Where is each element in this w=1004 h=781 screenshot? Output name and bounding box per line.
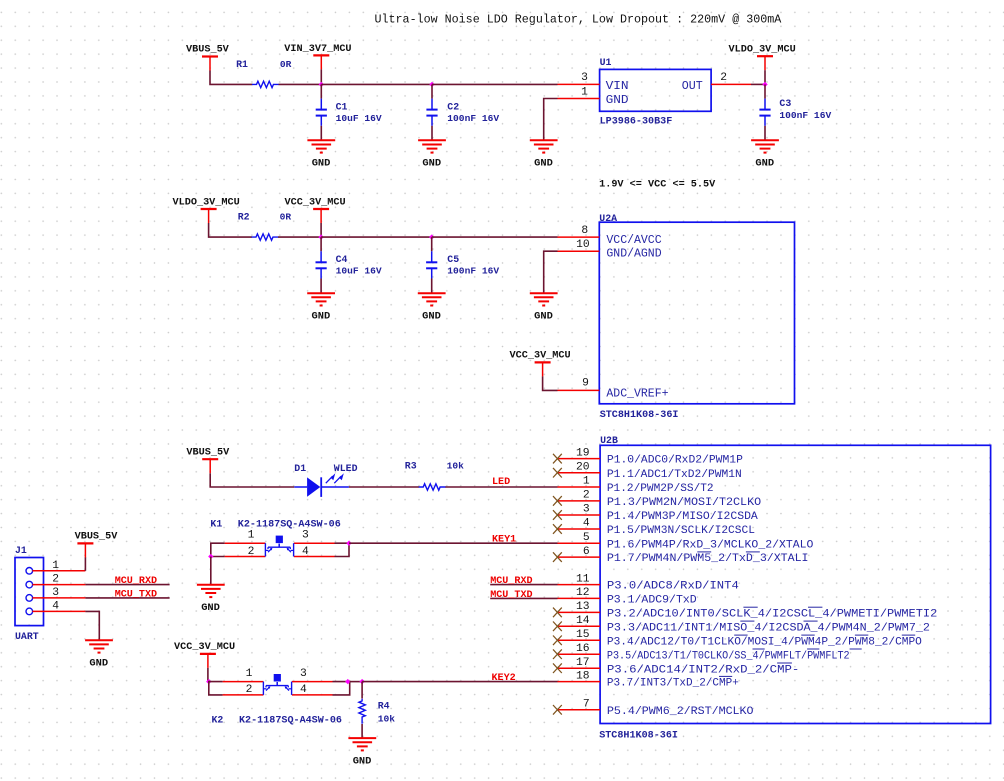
svg-text:GND: GND <box>422 158 441 170</box>
J1 pin 1 <box>26 568 33 575</box>
svg-text:11: 11 <box>576 573 590 585</box>
switch K2 contacts and button <box>262 682 264 695</box>
svg-text:2: 2 <box>583 490 590 502</box>
U2B pin 20 P1.1 <box>558 472 601 474</box>
U2B pin 17 P3.6 <box>558 667 601 669</box>
wire node to C2 <box>321 83 432 85</box>
svg-text:VCC/AVCC: VCC/AVCC <box>606 234 661 247</box>
wire U1 GND pin to ground <box>544 99 558 141</box>
svg-text:1: 1 <box>248 530 255 542</box>
svg-text:GND: GND <box>312 158 331 170</box>
switch K1 pin 4 <box>294 556 335 558</box>
svg-text:C2: C2 <box>447 101 459 112</box>
svg-text:3: 3 <box>52 587 59 599</box>
wire J1 pin3 net MCU_TXD <box>85 597 169 599</box>
switch K1 contacts and button <box>264 543 266 556</box>
junction at C2 <box>429 82 434 87</box>
svg-text:GND: GND <box>89 658 108 670</box>
power flag VLDO_3V_MCU (U1 output) <box>757 55 773 57</box>
svg-text:1: 1 <box>583 476 590 488</box>
switch K1 pin 2 <box>225 556 266 558</box>
power flag VCC_3V_MCU (ADC_VREF+) <box>535 361 551 363</box>
wire J1 pin2 net MCU_RXD <box>85 584 169 586</box>
switch K2 pin 2 <box>223 694 264 696</box>
wire J1 pin1 to VBUS_5V <box>84 557 86 571</box>
junction K2 top left <box>206 679 211 684</box>
svg-text:3: 3 <box>300 668 307 680</box>
svg-text:R4: R4 <box>378 700 390 711</box>
U2B pin 6 P1.7 <box>558 556 601 558</box>
svg-text:4: 4 <box>302 546 309 558</box>
svg-text:KEY1: KEY1 <box>492 534 516 545</box>
resistor R1 <box>252 81 279 87</box>
U2A pin 8 VCC/AVCC <box>558 236 600 238</box>
wire C2 node to U1 pin 3 <box>432 83 558 85</box>
svg-text:VBUS_5V: VBUS_5V <box>75 532 119 543</box>
U2B pin 11 P3.0 <box>558 584 601 586</box>
svg-text:VIN: VIN <box>606 80 629 93</box>
capacitor C3 <box>764 84 766 98</box>
svg-text:GND: GND <box>312 311 331 323</box>
wire VIN_3V7_MCU stem to rail <box>320 69 322 84</box>
svg-text:3: 3 <box>583 504 590 516</box>
ground below R4 <box>348 737 376 739</box>
U2B pin 13 P3.2 <box>558 611 601 613</box>
svg-text:20: 20 <box>576 461 590 473</box>
svg-text:GND: GND <box>755 158 774 170</box>
svg-text:1: 1 <box>581 86 588 98</box>
wire VLDO to rail B <box>209 223 252 237</box>
svg-text:P1.3/PWM2N/MOSI/T2CLKO: P1.3/PWM2N/MOSI/T2CLKO <box>607 497 761 509</box>
svg-text:ADC_VREF+: ADC_VREF+ <box>606 387 668 400</box>
svg-text:KEY2: KEY2 <box>492 673 516 684</box>
svg-text:2: 2 <box>248 546 255 558</box>
svg-text:P3.4/ADC12/T0/T1CLKO/MOSI_4/PW: P3.4/ADC12/T0/T1CLKO/MOSI_4/PWM4P_2/PWM8… <box>607 636 922 648</box>
svg-text:D1: D1 <box>294 463 306 474</box>
svg-text:P3.3/ADC11/INT1/MISO_4/I2CSDA_: P3.3/ADC11/INT1/MISO_4/I2CSDA_4/PWM4N_2/… <box>607 622 930 634</box>
svg-text:GND: GND <box>606 94 629 107</box>
svg-text:VBUS_5V: VBUS_5V <box>186 448 230 459</box>
switch K2 pin 4 <box>292 694 333 696</box>
svg-text:7: 7 <box>583 699 590 711</box>
svg-text:GND: GND <box>353 756 372 768</box>
U2B pin 3 P1.4 <box>558 514 601 516</box>
switch K2 pin 3 <box>292 681 333 683</box>
svg-text:K2: K2 <box>212 714 224 725</box>
svg-text:R2: R2 <box>238 212 250 223</box>
power flag VBUS_5V (top left) <box>202 55 218 57</box>
junction K1 bottom left <box>208 554 213 559</box>
wire K2 right loop <box>333 682 350 695</box>
U2A pin 10 GND/AGND <box>558 250 600 252</box>
ground below J1 <box>85 639 113 641</box>
wire VCC to ADC_VREF+ pin <box>543 376 558 390</box>
U2B pin 12 P3.1 <box>558 597 601 599</box>
power flag VIN_3V7_MCU <box>313 54 329 56</box>
ground below C5 <box>418 292 446 294</box>
U2B pin 1 P1.2 <box>558 486 601 488</box>
svg-text:15: 15 <box>576 629 590 641</box>
svg-text:100nF 16V: 100nF 16V <box>779 110 831 121</box>
svg-text:6: 6 <box>583 546 590 558</box>
switch K1 pin 3 <box>294 542 335 544</box>
svg-text:4: 4 <box>583 518 590 530</box>
svg-text:LP3986-30B3F: LP3986-30B3F <box>600 117 673 128</box>
connector J1 body <box>15 558 44 626</box>
svg-text:5: 5 <box>583 532 590 544</box>
junction at C5 <box>429 234 434 239</box>
svg-text:C4: C4 <box>336 254 348 265</box>
svg-text:VCC_3V_MCU: VCC_3V_MCU <box>510 350 571 361</box>
junction at C1/VIN_3V7_MCU <box>319 82 324 87</box>
wire OUT to node VLDO_3V_MCU <box>751 83 765 85</box>
U2B pin 2 P1.3 <box>558 500 601 502</box>
wire K2 to R4 node <box>350 681 362 683</box>
svg-text:P1.1/ADC1/TxD2/PWM1N: P1.1/ADC1/TxD2/PWM1N <box>607 469 742 481</box>
svg-text:P3.2/ADC10/INT0/SCLK_4/I2CSCL_: P3.2/ADC10/INT0/SCLK_4/I2CSCL_4/PWMETI/P… <box>607 609 938 621</box>
svg-text:1.9V <= VCC <= 5.5V: 1.9V <= VCC <= 5.5V <box>599 180 716 191</box>
J1 pin 2 <box>26 581 33 588</box>
wire C5 node to U2A pin 8 <box>432 236 558 238</box>
wire VBUS_5V to rail <box>210 71 252 85</box>
wire VCC to K2 <box>207 668 209 682</box>
svg-text:P1.4/PWM3P/MISO/I2CSDA: P1.4/PWM3P/MISO/I2CSDA <box>607 511 758 523</box>
ground below K1 <box>197 584 225 586</box>
svg-text:18: 18 <box>576 670 590 682</box>
wire R1 to node VIN_3V7_MCU <box>279 83 322 85</box>
wire K1 to U2B pin 5, net KEY1 <box>349 542 558 544</box>
svg-text:LED: LED <box>492 477 510 488</box>
wire R2 to node VCC_3V_MCU <box>278 236 321 238</box>
U1 pin 1 GND <box>558 98 600 100</box>
svg-text:C5: C5 <box>447 254 459 265</box>
U1 pin 2 OUT <box>711 83 751 85</box>
svg-text:VLDO_3V_MCU: VLDO_3V_MCU <box>173 197 240 208</box>
IC U2B body (STC8H1K08-36I GPIO section) <box>600 445 991 723</box>
power flag VBUS_5V (LED branch) <box>202 458 218 460</box>
svg-text:10k: 10k <box>378 714 396 725</box>
junction K1 top right <box>346 541 351 546</box>
U2B pin 16 P3.5 <box>558 653 601 655</box>
svg-text:9: 9 <box>582 378 589 390</box>
svg-text:2: 2 <box>720 72 727 84</box>
svg-text:1: 1 <box>52 560 59 572</box>
svg-text:OUT: OUT <box>682 80 703 93</box>
svg-text:WLED: WLED <box>334 463 358 474</box>
wire D1 to R3 <box>349 486 419 488</box>
ground below C4 <box>307 292 335 294</box>
svg-text:P5.4/PWM6_2/RST/MCLKO: P5.4/PWM6_2/RST/MCLKO <box>607 706 754 718</box>
U2B pin 15 P3.4 <box>558 639 601 641</box>
junction at C4/VCC_3V_MCU <box>318 234 323 239</box>
svg-text:4: 4 <box>52 600 59 612</box>
svg-text:P1.0/ADC0/RxD2/PWM1P: P1.0/ADC0/RxD2/PWM1P <box>607 455 743 467</box>
wire C2 to ground <box>431 126 433 141</box>
svg-text:U1: U1 <box>600 57 612 68</box>
U2B pin 14 P3.3 <box>558 625 601 627</box>
svg-text:100nF 16V: 100nF 16V <box>447 266 499 277</box>
U2B pin 5 P1.6 <box>558 542 601 544</box>
power flag VBUS_5V (J1) <box>77 542 93 544</box>
junction K2 top right <box>345 679 350 684</box>
svg-text:12: 12 <box>576 587 590 599</box>
svg-text:P3.6/ADC14/INT2/RxD_2/CMP-: P3.6/ADC14/INT2/RxD_2/CMP- <box>607 664 799 676</box>
svg-text:10uF 16V: 10uF 16V <box>336 266 382 277</box>
wire C3 to ground <box>764 126 766 141</box>
IC U2A body (STC8H1K08-36I power section) <box>599 222 794 404</box>
svg-text:MCU_RXD: MCU_RXD <box>490 576 532 587</box>
svg-text:K2-1187SQ-A4SW-06: K2-1187SQ-A4SW-06 <box>239 715 342 726</box>
ground below C3 <box>751 139 779 141</box>
svg-text:13: 13 <box>576 601 590 613</box>
svg-text:MCU_RXD: MCU_RXD <box>115 576 157 587</box>
svg-text:U2B: U2B <box>600 435 618 446</box>
svg-text:2: 2 <box>52 574 59 586</box>
svg-text:VCC_3V_MCU: VCC_3V_MCU <box>174 642 235 653</box>
ground below U2A <box>530 292 558 294</box>
svg-text:100nF 16V: 100nF 16V <box>447 113 499 124</box>
wire R4 node to U2B pin 18, net KEY2 <box>362 681 557 683</box>
svg-text:P3.0/ADC8/RxD/INT4: P3.0/ADC8/RxD/INT4 <box>607 581 739 593</box>
U2B pin 19 P1.0 <box>558 458 601 460</box>
ground below C2 <box>418 139 446 141</box>
wire U2B MCU_RXD stub <box>490 584 557 586</box>
svg-text:0R: 0R <box>280 59 292 70</box>
capacitor C5 <box>431 237 433 251</box>
power flag VCC_3V_MCU (K2) <box>200 653 216 655</box>
capacitor C2 <box>431 84 433 98</box>
svg-text:3: 3 <box>581 72 588 84</box>
wire U2A GND pin to ground <box>544 251 558 293</box>
svg-text:UART: UART <box>15 631 39 642</box>
svg-text:P1.2/PWM2P/SS/T2: P1.2/PWM2P/SS/T2 <box>607 483 714 495</box>
power flag VLDO_3V_MCU (row B input) <box>201 208 217 210</box>
svg-text:GND/AGND: GND/AGND <box>606 248 661 261</box>
svg-text:2: 2 <box>246 684 253 696</box>
wire node to R4 <box>361 682 363 699</box>
svg-text:P1.5/PWM3N/SCLK/I2CSCL: P1.5/PWM3N/SCLK/I2CSCL <box>607 525 755 537</box>
wire C5 to ground <box>431 279 433 294</box>
svg-text:16: 16 <box>576 643 590 655</box>
svg-text:C3: C3 <box>779 98 791 109</box>
svg-text:VIN_3V7_MCU: VIN_3V7_MCU <box>284 44 351 55</box>
svg-text:10k: 10k <box>447 461 465 472</box>
svg-text:8: 8 <box>581 225 588 237</box>
svg-text:STC8H1K08-36I: STC8H1K08-36I <box>600 410 679 421</box>
ground below C1 <box>307 139 335 141</box>
svg-text:4: 4 <box>300 684 307 696</box>
diode D1 WLED <box>294 486 307 488</box>
wire VCC_3V_MCU stem to rail <box>320 223 322 237</box>
svg-text:U2A: U2A <box>599 213 617 224</box>
junction at C3/VLDO <box>762 82 767 87</box>
op-amp U1 body (LDO LP3986-30B3F) <box>600 69 712 111</box>
svg-text:VBUS_5V: VBUS_5V <box>186 45 230 56</box>
wire C1 to ground <box>320 126 322 141</box>
U1 pin 3 VIN <box>558 83 600 85</box>
svg-text:Ultra-low Noise LDO Regulator,: Ultra-low Noise LDO Regulator, Low Dropo… <box>375 13 783 27</box>
capacitor C4 <box>320 237 322 251</box>
svg-text:R1: R1 <box>236 59 248 70</box>
wire R3 to U2B pin 1, net LED <box>445 486 557 488</box>
svg-text:GND: GND <box>534 158 553 170</box>
wire K1 left loop <box>211 543 225 556</box>
wire VBUS_5V to LED D1 <box>210 473 294 487</box>
svg-text:GND: GND <box>201 602 220 614</box>
svg-text:0R: 0R <box>280 212 292 223</box>
wire node to C5 <box>321 236 432 238</box>
svg-text:R3: R3 <box>405 461 417 472</box>
resistor R4 <box>359 699 365 724</box>
svg-text:VCC_3V_MCU: VCC_3V_MCU <box>285 197 346 208</box>
capacitor C1 <box>320 84 322 98</box>
svg-text:GND: GND <box>534 311 553 323</box>
svg-text:MCU_TXD: MCU_TXD <box>115 590 157 601</box>
svg-text:C1: C1 <box>336 101 348 112</box>
svg-text:GND: GND <box>422 311 441 323</box>
wire C4 to ground <box>320 279 322 294</box>
svg-text:17: 17 <box>576 657 590 669</box>
U2A pin 9 ADC_VREF+ <box>558 389 600 391</box>
svg-text:14: 14 <box>576 615 590 627</box>
resistor R2 <box>252 234 279 240</box>
svg-text:1: 1 <box>246 668 253 680</box>
svg-text:K1: K1 <box>210 519 222 530</box>
wire K1 right loop <box>335 543 350 556</box>
wire R4 to ground <box>361 724 363 738</box>
junction K2/R4 <box>359 679 364 684</box>
switch K2 pin 1 <box>223 681 264 683</box>
svg-text:10: 10 <box>576 239 590 251</box>
U2B pin 18 P3.7 <box>558 681 601 683</box>
svg-text:P1.6/PWM4P/RxD_3/MCLKO_2/XTALO: P1.6/PWM4P/RxD_3/MCLKO_2/XTALO <box>607 539 814 551</box>
ground below U1 <box>530 139 558 141</box>
svg-text:10uF 16V: 10uF 16V <box>336 113 382 124</box>
svg-text:P3.1/ADC9/TxD: P3.1/ADC9/TxD <box>607 595 697 607</box>
D1 light emission arrows <box>326 476 333 483</box>
wire J1 pin4 to ground <box>85 611 99 640</box>
svg-text:VLDO_3V_MCU: VLDO_3V_MCU <box>729 45 796 56</box>
U2B pin 4 P1.5 <box>558 528 601 530</box>
wire U2B MCU_TXD stub <box>490 597 557 599</box>
resistor R3 <box>419 484 446 490</box>
J1 pin 3 <box>26 595 33 602</box>
svg-text:19: 19 <box>576 447 590 459</box>
power flag VCC_3V_MCU (row B) <box>313 208 329 210</box>
svg-text:MCU_TXD: MCU_TXD <box>490 590 532 601</box>
J1 pin 4 <box>26 608 33 615</box>
svg-text:P3.7/INT3/TxD_2/CMP+: P3.7/INT3/TxD_2/CMP+ <box>607 678 739 690</box>
switch K1 pin 1 <box>225 542 266 544</box>
svg-text:STC8H1K08-36I: STC8H1K08-36I <box>599 730 678 741</box>
svg-text:J1: J1 <box>15 545 27 556</box>
wire K2 left loop <box>209 682 223 695</box>
svg-text:3: 3 <box>302 530 309 542</box>
U2B pin 7 P5.4 <box>558 709 601 711</box>
wire K1 to ground <box>210 557 212 585</box>
svg-text:P3.5/ADC13/T1/T0CLKO/SS_4/PWMF: P3.5/ADC13/T1/T0CLKO/SS_4/PWMFLT/PWMFLT2 <box>607 650 850 662</box>
svg-text:P1.7/PWM4N/PWM5_2/TxD_3/XTALI: P1.7/PWM4N/PWM5_2/TxD_3/XTALI <box>607 553 809 565</box>
